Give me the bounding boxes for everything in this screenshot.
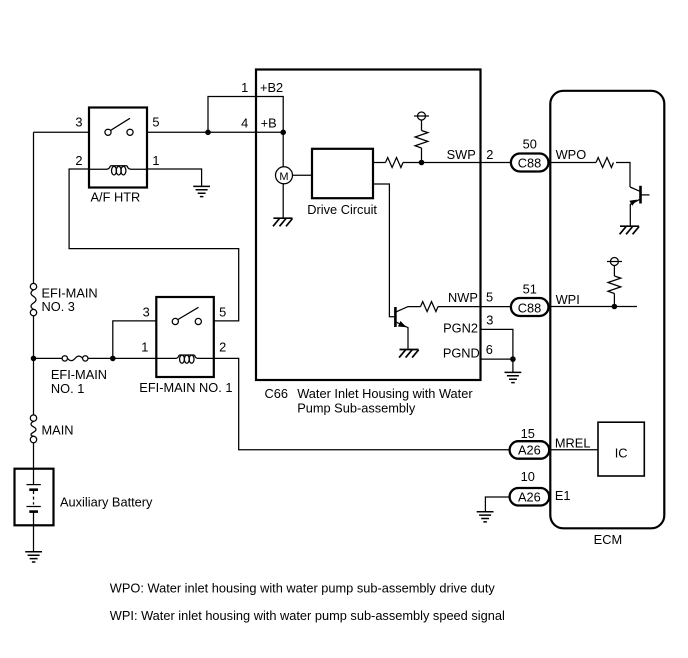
svg-text:5: 5: [486, 290, 493, 305]
svg-text:4: 4: [241, 116, 248, 131]
svg-text:NWP: NWP: [448, 290, 478, 305]
svg-text:A26: A26: [518, 443, 541, 458]
svg-text:WPI: Water inlet housing with: WPI: Water inlet housing with water pump…: [110, 608, 505, 623]
svg-text:A26: A26: [518, 490, 541, 505]
svg-text:E1: E1: [555, 488, 571, 503]
svg-text:+B: +B: [261, 116, 277, 131]
svg-text:1: 1: [141, 340, 148, 355]
svg-text:ECM: ECM: [594, 532, 622, 547]
svg-text:Pump Sub-assembly: Pump Sub-assembly: [297, 401, 416, 416]
svg-text:WPO: WPO: [556, 147, 587, 162]
svg-text:C66: C66: [265, 386, 288, 401]
svg-text:1: 1: [152, 153, 159, 168]
svg-text:C88: C88: [518, 300, 541, 315]
svg-text:Water Inlet Housing with Water: Water Inlet Housing with Water: [297, 386, 473, 401]
svg-text:PGN2: PGN2: [443, 320, 478, 335]
svg-text:A/F HTR: A/F HTR: [91, 190, 141, 205]
svg-text:51: 51: [523, 282, 537, 297]
svg-text:IC: IC: [615, 446, 628, 461]
svg-text:50: 50: [523, 136, 537, 151]
svg-text:M: M: [279, 171, 288, 183]
svg-text:3: 3: [143, 304, 150, 319]
svg-text:Auxiliary Battery: Auxiliary Battery: [60, 494, 153, 509]
svg-text:MREL: MREL: [555, 435, 591, 450]
svg-text:EFI-MAIN: EFI-MAIN: [42, 285, 98, 300]
svg-text:WPI: WPI: [556, 292, 580, 307]
svg-text:C88: C88: [518, 156, 541, 171]
svg-text:Drive Circuit: Drive Circuit: [307, 202, 377, 217]
svg-text:MAIN: MAIN: [42, 423, 74, 438]
svg-text:10: 10: [521, 469, 535, 484]
svg-text:WPO: Water inlet housing with: WPO: Water inlet housing with water pump…: [110, 580, 496, 595]
svg-text:EFI-MAIN NO. 1: EFI-MAIN NO. 1: [139, 380, 232, 395]
svg-text:6: 6: [486, 342, 493, 357]
svg-text:2: 2: [75, 153, 82, 168]
svg-text:+B2: +B2: [260, 80, 283, 95]
svg-text:NO. 1: NO. 1: [51, 381, 84, 396]
svg-text:PGND: PGND: [443, 345, 480, 360]
svg-text:2: 2: [219, 340, 226, 355]
svg-text:15: 15: [521, 426, 535, 441]
svg-text:1: 1: [241, 80, 248, 95]
svg-text:NO. 3: NO. 3: [42, 299, 75, 314]
svg-text:5: 5: [219, 304, 226, 319]
svg-text:3: 3: [486, 312, 493, 327]
svg-text:EFI-MAIN: EFI-MAIN: [51, 367, 107, 382]
svg-text:5: 5: [152, 114, 159, 129]
svg-text:3: 3: [75, 114, 82, 129]
svg-text:SWP: SWP: [447, 147, 476, 162]
svg-text:2: 2: [486, 147, 493, 162]
